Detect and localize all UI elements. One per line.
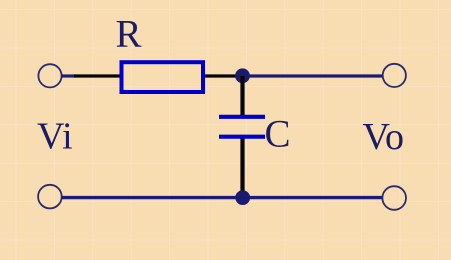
- svg-text:C: C: [265, 112, 291, 155]
- terminal port Vi top-left: [38, 64, 61, 87]
- wire black from resistor to node A: [205, 74, 240, 77]
- wire navy stub from Vi top terminal: [62, 74, 77, 77]
- svg-text:Vo: Vo: [363, 116, 405, 158]
- wire black vertical from node A to capacitor top plate: [240, 76, 244, 115]
- node A junction dot (top): [235, 68, 250, 83]
- wire black from stub to resistor: [74, 74, 121, 77]
- capacitor C: [219, 117, 265, 137]
- node B junction dot (bottom): [235, 190, 250, 205]
- svg-text:Vi: Vi: [37, 115, 73, 157]
- wire navy from node A to Vo terminal: [246, 74, 383, 77]
- wire black vertical from capacitor bottom plate to node B: [240, 139, 244, 198]
- terminal port bottom-left: [38, 185, 62, 209]
- svg-text:R: R: [116, 13, 142, 56]
- terminal port Vo top-right: [383, 64, 406, 87]
- terminal port bottom-right: [382, 186, 406, 210]
- wire navy bottom rail: [62, 196, 384, 199]
- resistor R: [122, 62, 204, 92]
